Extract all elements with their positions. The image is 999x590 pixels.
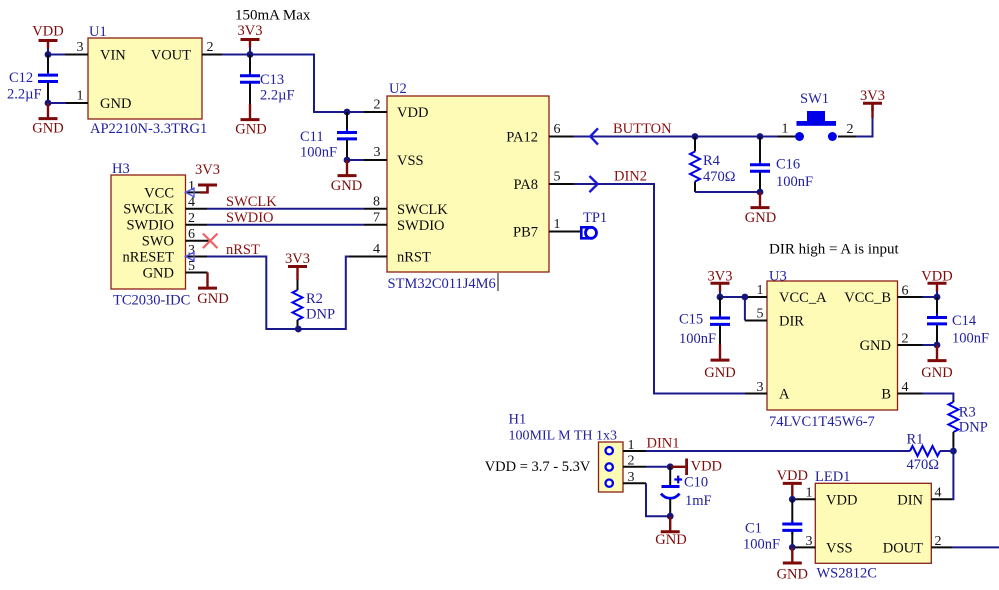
pin 6 H3 SWO [186, 227, 210, 242]
svg-text:VDD: VDD [32, 24, 63, 40]
pin 2 H3 SWDIO [186, 211, 208, 226]
svg-text:SWDIO: SWDIO [397, 218, 445, 234]
pin 4 U2 nRST [349, 242, 387, 257]
svg-text:1: 1 [757, 283, 764, 298]
svg-text:3: 3 [77, 40, 84, 55]
svg-text:LED1: LED1 [815, 469, 850, 485]
pin 5 U3 DIR [745, 307, 767, 322]
ground at H3 [198, 273, 217, 289]
capacitor C16 [750, 137, 813, 193]
pin 6 U3 VCC_B [898, 284, 923, 299]
svg-text:1: 1 [782, 122, 789, 137]
svg-text:VCC_B: VCC_B [844, 290, 891, 306]
svg-text:8: 8 [373, 194, 380, 209]
pin 4 H3 SWCLK [186, 195, 208, 210]
wire VOUT to U2 VDD [222, 55, 364, 113]
svg-text:GND: GND [143, 266, 174, 282]
svg-text:VSS: VSS [826, 541, 853, 557]
capacitor C15 [679, 297, 730, 347]
node VDD-C14 [934, 294, 941, 301]
svg-text:6: 6 [188, 227, 195, 242]
svg-text:2: 2 [207, 40, 214, 55]
svg-text:DNP: DNP [306, 307, 335, 323]
svg-text:GND: GND [921, 365, 952, 381]
pin 5 H3 GND [186, 259, 208, 274]
pin 8 U2 SWCLK [364, 194, 387, 209]
testpoint TP1 [581, 210, 607, 238]
svg-text:H1: H1 [509, 412, 527, 428]
pin 3 LED1 VSS [792, 534, 815, 549]
power 3V3 at R2 [285, 251, 310, 280]
svg-text:3V3: 3V3 [238, 23, 263, 39]
node C12-GND [45, 100, 52, 107]
svg-text:2: 2 [628, 454, 635, 469]
svg-text:2: 2 [935, 534, 942, 549]
svg-text:4: 4 [935, 486, 942, 501]
svg-text:4: 4 [902, 380, 909, 395]
svg-text:3V3: 3V3 [195, 162, 220, 178]
pin 2 U2 VDD [364, 98, 387, 113]
pin 2 H1 [623, 454, 646, 469]
pin 1 LED1 VDD [792, 486, 815, 501]
node C14-GND [934, 342, 941, 349]
svg-text:SWCLK: SWCLK [123, 202, 174, 218]
svg-text:4: 4 [188, 195, 195, 210]
svg-text:C11: C11 [300, 129, 324, 145]
svg-text:GND: GND [704, 365, 735, 381]
pin 2 LED1 DOUT [931, 534, 952, 549]
svg-text:H3: H3 [112, 161, 130, 177]
wire DOUT exit [952, 546, 999, 548]
svg-text:3V3: 3V3 [708, 269, 733, 285]
node R2-nRST [295, 326, 302, 333]
pin 4 LED1 DIN [931, 486, 952, 501]
svg-text:3: 3 [806, 534, 813, 549]
svg-text:SWCLK: SWCLK [397, 202, 448, 218]
capacitor C1 [743, 499, 802, 552]
svg-text:WS2812C: WS2812C [817, 566, 877, 582]
svg-text:3: 3 [628, 470, 635, 485]
pin 3 U3 A [745, 380, 767, 395]
pin 2 U1 VOUT [202, 40, 222, 55]
wire C12 to pin1 [48, 102, 66, 104]
wire net nRST [207, 257, 349, 330]
svg-text:DIN: DIN [897, 492, 923, 508]
capacitor C11 [300, 112, 357, 161]
pin 6 U2 PA12 [549, 122, 574, 137]
svg-text:1: 1 [554, 217, 561, 232]
svg-text:SWDIO: SWDIO [226, 210, 274, 226]
wire C11 to VSS [347, 159, 364, 161]
svg-text:470Ω: 470Ω [907, 457, 940, 473]
svg-text:C10: C10 [684, 475, 708, 491]
svg-text:100nF: 100nF [300, 145, 337, 161]
pin 1 U1 GND [65, 89, 88, 104]
svg-text:2: 2 [902, 332, 909, 347]
svg-text:GND: GND [197, 291, 228, 307]
svg-text:VDD: VDD [826, 492, 857, 508]
svg-text:100nF: 100nF [776, 174, 813, 190]
wire U3 GND pin to C14 bottom [923, 344, 938, 346]
power 3V3 at SW1 [860, 88, 885, 118]
svg-text:GND: GND [745, 210, 776, 226]
svg-text:TC2030-IDC: TC2030-IDC [113, 293, 190, 309]
svg-text:U2: U2 [389, 81, 407, 97]
pin 3 H1 [623, 470, 646, 485]
pin 1 U2 PB7 [549, 217, 582, 232]
ground below C1 [783, 547, 802, 563]
svg-text:DIN2: DIN2 [614, 169, 647, 185]
wire VCC_B to VDD [923, 296, 938, 298]
svg-text:VDD: VDD [397, 105, 428, 121]
svg-text:C13: C13 [260, 72, 284, 88]
wire R4 to C16 bottom [695, 191, 760, 193]
svg-text:C14: C14 [952, 313, 977, 329]
connector H3 body [111, 161, 190, 309]
pin 4 U3 B [898, 380, 923, 395]
power 3V3 at H3 [195, 162, 220, 193]
text cursor artifact [497, 273, 499, 291]
svg-text:DIR: DIR [779, 314, 804, 330]
power VDD at H1 (rotated) [670, 459, 722, 476]
svg-text:2: 2 [374, 98, 381, 113]
ground below C11 [338, 160, 357, 176]
svg-text:1mF: 1mF [685, 493, 712, 509]
svg-text:DIN1: DIN1 [647, 436, 680, 452]
wire 3V3 to U3 VCC_A and DIR [720, 297, 745, 321]
capacitor C14 [927, 297, 989, 347]
ground below C13 [241, 104, 260, 120]
node C1-GND [789, 544, 796, 551]
svg-text:GND: GND [235, 122, 266, 138]
svg-text:3: 3 [374, 145, 381, 160]
ground below C15 [711, 345, 730, 361]
svg-text:BUTTON: BUTTON [613, 121, 672, 137]
pin 2 U3 GND [898, 332, 923, 347]
arrow DIN2 direction [589, 176, 597, 192]
power VDD [32, 24, 63, 49]
svg-text:R3: R3 [959, 405, 976, 421]
svg-text:GND: GND [860, 338, 891, 354]
svg-text:100nF: 100nF [743, 537, 780, 553]
node 3V3-C15 [717, 294, 724, 301]
ground below C16 [751, 192, 770, 208]
pin 1 U3 VCC_A [745, 283, 767, 298]
svg-text:2: 2 [847, 122, 854, 137]
wire net SWDIO [207, 224, 364, 226]
svg-text:VDD: VDD [777, 468, 808, 484]
svg-text:3V3: 3V3 [860, 88, 885, 104]
svg-text:R1: R1 [907, 432, 924, 448]
svg-text:U1: U1 [89, 24, 107, 40]
svg-text:5: 5 [554, 170, 561, 185]
IC U2 body [387, 81, 549, 292]
svg-text:5: 5 [188, 259, 195, 274]
svg-text:VDD = 3.7 - 5.3V: VDD = 3.7 - 5.3V [485, 459, 591, 475]
arrow BUTTON direction [590, 128, 598, 144]
power 3V3 at C15 [708, 269, 733, 298]
node VCCA-DIR [742, 294, 749, 301]
svg-text:4: 4 [373, 242, 380, 257]
svg-text:PA8: PA8 [514, 177, 538, 193]
svg-text:C1: C1 [745, 521, 762, 537]
svg-text:6: 6 [554, 122, 561, 137]
resistor R4 [690, 137, 736, 193]
svg-text:1: 1 [628, 438, 635, 453]
power 3V3 at C13 [238, 23, 263, 55]
svg-text:2: 2 [188, 211, 195, 226]
svg-text:100nF: 100nF [679, 331, 716, 347]
ground below C14 [928, 345, 947, 361]
svg-text:nRST: nRST [397, 250, 431, 266]
pin 1 H1 [623, 438, 646, 453]
node pin2-VDD-C10 [667, 463, 674, 470]
node C11-GND [344, 157, 351, 164]
svg-text:R2: R2 [306, 291, 323, 307]
svg-text:PA12: PA12 [506, 130, 538, 146]
power VDD at LED1 [777, 468, 808, 500]
no-connect X at SWO [203, 234, 218, 249]
svg-text:DOUT: DOUT [883, 541, 923, 557]
svg-text:7: 7 [373, 210, 380, 225]
node R1-R3-DIN [950, 448, 957, 455]
svg-text:6: 6 [902, 284, 909, 299]
capacitor C13 [240, 55, 295, 105]
connector H1 body [509, 412, 624, 493]
svg-text:SWCLK: SWCLK [226, 194, 277, 210]
node R4-C16-GND [757, 189, 764, 196]
svg-text:C16: C16 [776, 157, 800, 173]
svg-text:5: 5 [757, 307, 764, 322]
LED LED1 body [815, 469, 931, 582]
pin 5 U2 PA8 [549, 170, 574, 185]
svg-text:VCC_A: VCC_A [779, 290, 827, 306]
resistor R3 [948, 400, 987, 447]
svg-text:VSS: VSS [397, 153, 424, 169]
svg-text:PB7: PB7 [513, 225, 538, 241]
wire R3 to LED DIN [952, 447, 953, 499]
svg-text:VCC: VCC [144, 186, 174, 202]
resistor R1 [907, 432, 954, 474]
svg-text:3V3: 3V3 [285, 251, 310, 267]
node wire-C11 [344, 109, 351, 116]
svg-text:74LVC1T45W6-7: 74LVC1T45W6-7 [769, 414, 875, 430]
svg-text:DIR high = A is input: DIR high = A is input [769, 242, 900, 258]
wire net DIN1 [646, 450, 910, 452]
ground below C12 [39, 103, 58, 119]
svg-text:GND: GND [331, 178, 362, 194]
svg-text:GND: GND [655, 532, 686, 548]
svg-text:STM32C011J4M6: STM32C011J4M6 [388, 276, 496, 292]
node BUTTON-C16 [757, 133, 764, 140]
node VDD-C1 [789, 496, 796, 503]
svg-text:GND: GND [777, 567, 808, 583]
node BUTTON-R4 [692, 133, 699, 140]
svg-text:VIN: VIN [100, 48, 126, 64]
svg-text:100nF: 100nF [952, 331, 989, 347]
svg-text:SWDIO: SWDIO [126, 218, 174, 234]
wire net SWCLK [207, 208, 364, 210]
wire VDD to pin3 [48, 48, 65, 55]
svg-text:R4: R4 [703, 153, 721, 169]
IC U3 body [767, 269, 898, 431]
svg-text:C12: C12 [9, 70, 33, 86]
svg-text:SWO: SWO [142, 234, 174, 250]
svg-text:VDD: VDD [921, 269, 952, 285]
pin 7 U2 SWDIO [364, 210, 387, 225]
svg-text:1: 1 [77, 89, 84, 104]
svg-text:DNP: DNP [959, 420, 988, 436]
capacitor C10 polarized [661, 467, 712, 516]
pin 1 H3 VCC [186, 179, 201, 197]
svg-text:AP2210N-3.3TRG1: AP2210N-3.3TRG1 [90, 121, 207, 137]
capacitor C12 [7, 55, 58, 104]
pin 3 U1 VIN [64, 40, 88, 55]
op-amp U1 body [88, 24, 207, 137]
node 3V3-C13 [247, 51, 254, 58]
wire SW1 to 3V3 [856, 117, 873, 137]
svg-text:VDD: VDD [691, 459, 722, 475]
wire net B to R3 [923, 394, 954, 401]
svg-text:100MIL M TH 1x3: 100MIL M TH 1x3 [509, 429, 618, 444]
svg-text:B: B [881, 387, 891, 403]
wire pin3 to C10 bottom [646, 483, 670, 516]
ground below C10 [661, 516, 680, 532]
svg-text:U3: U3 [769, 269, 787, 285]
node VDD-C12 [45, 51, 52, 58]
svg-text:GND: GND [32, 121, 63, 137]
svg-text:150mA Max: 150mA Max [235, 8, 311, 24]
svg-text:470Ω: 470Ω [703, 169, 736, 185]
svg-text:GND: GND [100, 96, 131, 112]
svg-text:TP1: TP1 [583, 210, 607, 226]
wire pin2 to C10 [646, 466, 670, 468]
pin 3 U2 VSS [364, 145, 387, 160]
switch SW1 [778, 91, 857, 141]
svg-text:nRESET: nRESET [122, 250, 174, 266]
svg-text:SW1: SW1 [800, 91, 829, 107]
svg-text:nRST: nRST [226, 242, 260, 258]
resistor R2 [293, 280, 336, 329]
power VDD at U3 [921, 269, 952, 298]
pin 3 H3 nRESET [186, 243, 208, 261]
svg-text:3: 3 [757, 380, 764, 395]
wire net DIN2 [574, 184, 746, 394]
svg-text:C15: C15 [679, 312, 703, 328]
svg-text:2.2µF: 2.2µF [260, 88, 295, 104]
wire net BUTTON [574, 136, 778, 138]
svg-text:2.2µF: 2.2µF [7, 87, 42, 103]
svg-text:A: A [779, 387, 790, 403]
svg-text:VOUT: VOUT [151, 48, 191, 64]
svg-text:1: 1 [806, 486, 813, 501]
node C10-GND [667, 513, 674, 520]
